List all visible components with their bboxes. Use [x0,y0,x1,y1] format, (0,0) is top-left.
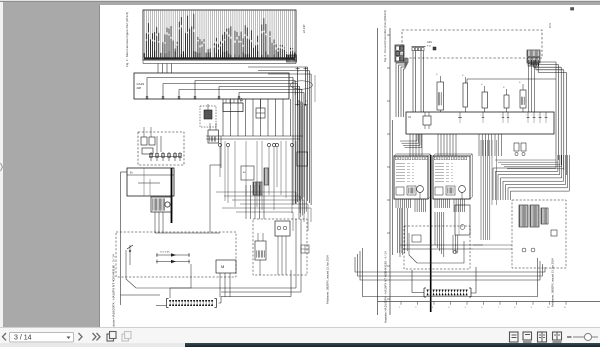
right bundle corners to page edge [529,60,566,175]
svg-text:B+: B+ [130,172,134,175]
wire drops from junction box [223,99,291,136]
wires control unit to valve block [246,185,264,219]
svg-text:s: s [538,115,539,117]
zoom slider knob [584,333,591,340]
wire drops below terminal box [400,134,501,156]
left margin wire [121,172,161,305]
fuse block dark [151,197,172,212]
page2 outer frame line [377,28,379,315]
svg-text:2: 2 [298,71,300,73]
copy pages icon (active) [107,332,116,342]
valve wires [260,236,286,275]
svg-text:11: 11 [564,307,567,309]
footer doc number page2 (vertical) [384,251,388,323]
svg-text:4: 4 [448,307,450,309]
svg-text:S: S [519,82,521,84]
svg-text:10: 10 [547,307,550,309]
zoom out minus [567,336,572,338]
horn H1 [519,82,526,112]
relay K3 [208,123,219,143]
relay bank inside dashed box [141,127,155,154]
next page chevron [79,333,83,340]
svg-text:3: 3 [432,307,434,309]
top right page mark [571,8,574,11]
arrow symbol links [156,252,190,264]
footer issue text page2 (vertical) [551,258,555,307]
svg-text:Haulotte HA16/20PX - HA16PX NT: Haulotte HA16/20PX - HA16PX NT 400044318… [384,251,388,323]
left long bundle [393,117,403,255]
page number combo box [10,333,74,343]
svg-text:8: 8 [514,307,516,309]
connector label band X1 (wire number strip) [143,10,296,60]
hour meter P1 [455,205,470,235]
text block inside dashed box [427,41,436,50]
extra harness verticals center [99,4,101,6]
footer issue text (right, vertical) [326,255,330,304]
last page double chevron [93,333,101,340]
wire bundle corner turning down [248,67,311,205]
svg-text:24P: 24P [137,86,142,90]
terminal strip (dense) page2 [424,288,471,297]
relay pair right [514,143,526,156]
limit switch S10 [436,74,444,112]
two-page view icon [538,332,547,342]
svg-text:CA19: CA19 [137,82,145,86]
wire bus inside harness box (stepped to pins) [146,78,304,100]
grid connector CB1 [395,45,404,62]
tilt sensor B2 [462,75,468,112]
solenoid valve Y1 [275,221,290,236]
terminal box (ground station) [406,112,554,134]
bottom frame ruler [378,302,600,310]
switch S12 [503,87,509,112]
copy pages icon (disabled) [122,332,131,342]
wires below fuse block [155,212,220,233]
vertical connector wires band-to-box [158,64,172,74]
svg-text:2: 2 [415,307,417,309]
svg-text:6: 6 [481,307,483,309]
connector block right end (hatched) [527,50,540,66]
svg-text:E14: E14 [427,46,432,48]
connector block at band end [287,55,297,62]
wires below modules [400,208,483,257]
thick supply wire [171,168,173,223]
svg-text:s: s [532,115,533,117]
terminal strip XT (dense) [156,299,221,308]
harness junction box CA19 [134,73,289,99]
dark contact marks [253,182,262,195]
junction box inner component [241,166,254,180]
junction box on bundle [297,152,308,166]
thick supply wire between modules [430,155,432,312]
relay K2 [223,98,243,112]
bottom collector wires [170,165,301,298]
strip right riser wire [221,270,291,303]
svg-text:S: S [436,74,438,76]
svg-text:3 / 14: 3 / 14 [14,335,32,342]
centre verticals [225,141,296,210]
power module M1 (dark block) [127,168,174,196]
contact row inside dashed box [149,136,182,161]
svg-text:1: 1 [399,307,401,309]
two-page continuous icon [553,332,562,342]
pin row below dashed box (left) [412,47,426,51]
svg-text:S: S [481,84,483,86]
switch S11 [481,84,488,112]
svg-text:S: S [503,87,505,89]
footer doc number (left, vertical) [112,254,116,331]
control unit top rail (double line) [206,136,303,168]
wires connector to terminal box [529,60,535,112]
main harness bundle right [299,100,306,219]
svg-text:18 0.5 BK: 18 0.5 BK [160,252,170,254]
svg-text:Feldname: 16/20PX, issued 13 J: Feldname: 16/20PX, issued 13 Jan 2014 [551,258,555,307]
hatched bar component [264,168,269,185]
platform outline polygon [409,233,464,263]
solenoid valve Y2 [255,233,266,260]
label 24V vertical [549,23,552,28]
relay module A1 [394,154,430,212]
chassis outline polygon [126,250,191,288]
svg-text:S: S [462,75,464,77]
relay contact block dark [204,104,212,119]
connector bushings row [218,143,293,213]
svg-text:2: 2 [306,101,308,103]
wires from left pins descending [413,51,424,112]
vertical figure title page 1 [125,12,129,67]
dashed enclosure: switch bank [512,200,566,268]
svg-text:5: 5 [465,307,467,309]
inline connector with oval (twisted pair) [291,67,316,106]
horizontal wire to right [467,79,556,83]
svg-text:Fig. 1 : Main Harness Figure P: Fig. 1 : Main Harness Figure Part (2C1/4… [125,12,129,67]
switch bank hatched blocks [519,205,557,252]
prev page chevron [3,333,7,340]
zoom slider track [573,336,598,338]
small label right of band [302,24,306,33]
extra verticals page2 [473,140,512,249]
svg-text:s: s [458,115,459,117]
bottom harness loop [355,248,545,297]
SA grid mark [301,245,309,253]
lower horizontal runs [216,192,311,231]
svg-text:X2: X2 [408,116,412,119]
strip leads page2 [412,267,476,293]
svg-text:s: s [506,115,507,117]
dashed enclosure centre (platform box) [404,226,470,269]
svg-text:Haulotte HA16/20PX - HA16PX NT: Haulotte HA16/20PX - HA16PX NT 400044318… [112,254,116,327]
continuous page view icon [523,332,532,342]
svg-text:7: 7 [498,307,500,309]
left wire bundle with corners [396,58,408,117]
left frame ruler line [387,28,390,315]
dashed enclosure: ground control box [402,30,542,58]
svg-text:s: s [481,115,482,117]
harness mesh right [481,140,569,240]
dashed enclosure (valve block) [253,219,307,275]
svg-text:2A 14P: 2A 14P [302,24,306,33]
svg-text:24 V: 24 V [549,23,552,28]
svg-text:GR1: GR1 [427,41,433,44]
diode module [256,99,265,118]
svg-text:Feldname: 16/20PX, issued 13 J: Feldname: 16/20PX, issued 13 Jan 2014 [326,255,330,304]
svg-text:Fig. 2 : Ground (transmitter): Fig. 2 : Ground (transmitter) box (2AC1/… [383,10,387,62]
svg-text:M: M [221,264,224,269]
svg-text:9: 9 [531,307,533,309]
svg-text:s: s [501,115,502,117]
vertical figure title page 2 [383,10,387,62]
dashed enclosure (sensor group) [116,232,236,277]
bus line under band [143,60,296,64]
pump motor connector [216,260,236,297]
svg-text:s: s [526,115,527,117]
relay module A2 [433,154,472,212]
small dashed enclosure relay [200,106,216,127]
sensor switch S1 [127,245,133,265]
single page view icon [510,332,519,342]
dashed enclosure (relay option box) [138,132,184,165]
svg-text:s: s [544,115,545,117]
svg-text:2: 2 [306,71,308,73]
